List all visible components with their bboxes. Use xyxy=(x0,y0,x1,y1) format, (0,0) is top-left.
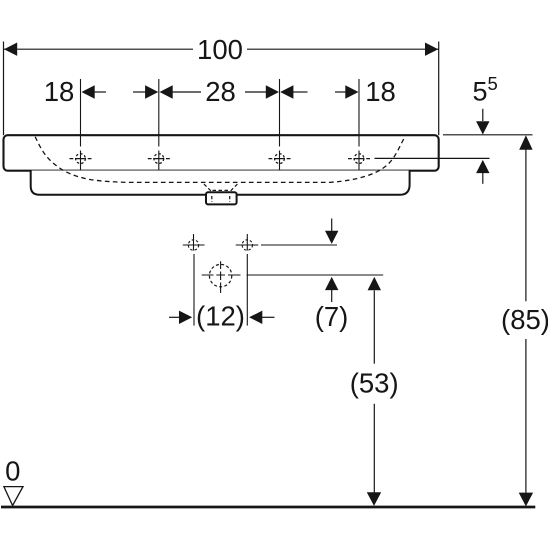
extension line basin top right xyxy=(443,134,533,136)
centerline tap hole 2 xyxy=(158,79,160,171)
dim line 28 left segment xyxy=(172,91,201,93)
svg-text:100: 100 xyxy=(197,34,243,65)
extension line right (100 dim) xyxy=(438,42,440,136)
spout hole dashed circle xyxy=(209,264,231,286)
dim 85 up arrowhead xyxy=(519,135,532,149)
dim 85 line lower xyxy=(525,339,527,493)
svg-text:28: 28 xyxy=(205,76,236,107)
spout hole cross vertical xyxy=(220,261,222,293)
centerline tap hole 4 xyxy=(358,79,360,171)
spout hole cross horizontal xyxy=(202,274,241,276)
dim 85 line upper xyxy=(525,149,527,301)
ground line xyxy=(1,506,535,509)
dim 5.5 down arrowhead xyxy=(476,121,489,134)
drain dashed tick left xyxy=(211,196,213,202)
svg-text:(12): (12) xyxy=(196,301,245,332)
drain dashed tick right xyxy=(229,196,231,202)
dim 53 line upper xyxy=(373,291,375,364)
tap hole height line xyxy=(375,157,490,159)
arrowhead 28 at hole2 right xyxy=(160,85,173,98)
arrowhead 18 at hole2 left xyxy=(145,85,158,98)
dim 7 up arrow tail xyxy=(331,290,333,302)
dim 7 up arrowhead xyxy=(325,277,338,290)
svg-text:(7): (7) xyxy=(315,301,349,332)
arrowhead 28 at hole3 left xyxy=(266,85,279,98)
svg-text:0: 0 xyxy=(5,456,20,487)
dim 85 down arrowhead xyxy=(519,493,533,507)
svg-text:(85): (85) xyxy=(501,304,548,335)
basin body xyxy=(4,135,439,171)
bowl inner dashed outline xyxy=(35,137,404,183)
arrowhead 100 right xyxy=(425,43,438,56)
arrowhead 100 left xyxy=(4,43,17,56)
dim 12 right arrowhead xyxy=(249,311,262,324)
tap hole 1 xyxy=(70,154,92,164)
arrowhead 18 at hole3 right xyxy=(280,85,293,98)
arrowhead 18 at hole4 xyxy=(345,85,358,98)
drain dashed top xyxy=(213,189,230,191)
dim 5.5 up arrowhead xyxy=(476,160,489,173)
svg-text:18: 18 xyxy=(44,76,75,107)
dim 53 down arrowhead xyxy=(367,492,381,506)
dim line 28 right segment xyxy=(245,91,267,93)
dimension line 100 left segment xyxy=(4,48,194,50)
centerline tap hole 3 xyxy=(279,79,281,171)
dim tail left of hole2 xyxy=(133,91,146,93)
dim 7 down arrow tail xyxy=(331,219,333,232)
dim 12 left tail xyxy=(169,316,179,318)
dim 12 right tail xyxy=(262,316,275,318)
dim tail right of hole1 xyxy=(94,91,106,93)
dim 53 up arrowhead xyxy=(368,277,381,290)
spout height line xyxy=(247,274,384,276)
arrowhead 18 at hole1 xyxy=(82,85,95,98)
extension line left (100 dim) xyxy=(3,42,5,136)
faucet hole left xyxy=(183,234,205,251)
drain housing xyxy=(206,192,237,204)
tap hole 2 xyxy=(148,154,170,164)
svg-text:18: 18 xyxy=(365,76,396,107)
basin bowl lower outline xyxy=(31,171,410,195)
dim 12 left arrowhead xyxy=(179,311,192,324)
tap hole 4 xyxy=(348,154,370,164)
svg-text:(53): (53) xyxy=(350,368,399,399)
dim tail right of hole3 xyxy=(293,91,308,93)
dim tail left of hole4 xyxy=(335,91,346,93)
dim 53 line lower xyxy=(373,404,375,493)
extension line faucet left xyxy=(193,254,195,326)
centerline tap hole 1 xyxy=(80,79,82,171)
dim 5.5 down arrow tail xyxy=(482,109,484,121)
faucet holes height line xyxy=(261,244,337,246)
datum triangle xyxy=(4,487,23,506)
drain funnel dashed left xyxy=(204,184,212,192)
dim 7 down arrowhead xyxy=(325,231,338,244)
faucet hole right xyxy=(236,234,259,251)
svg-text:55: 55 xyxy=(473,73,498,107)
dimension line 100 right segment xyxy=(247,48,439,50)
tap hole 3 xyxy=(269,154,291,164)
drain funnel dashed right xyxy=(230,184,238,192)
extension line faucet right xyxy=(246,254,248,326)
dim 5.5 up arrow tail xyxy=(482,173,484,184)
